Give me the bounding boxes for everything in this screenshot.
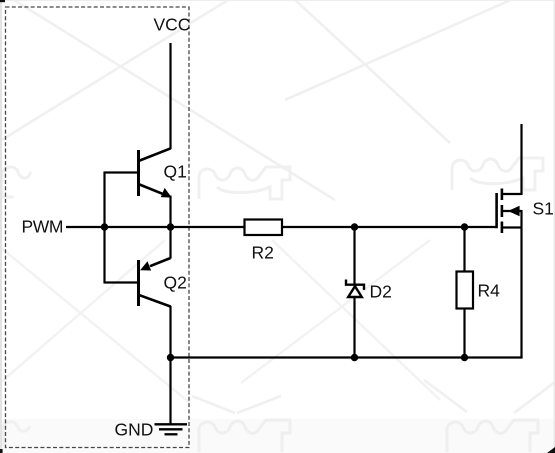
svg-text:R4: R4 (478, 281, 501, 301)
S1 gate bar (495, 193, 498, 228)
S1 channel segment top (501, 189, 504, 201)
node PWM junction (101, 223, 108, 230)
resistor R4 (457, 272, 474, 309)
wire Q2 base lead (105, 281, 138, 283)
wire node to Q2 emitter (169, 227, 171, 259)
node R4 top junction (461, 223, 468, 230)
S1 body stub (502, 210, 522, 212)
svg-text:GND: GND (115, 420, 154, 440)
D2 anode triangle (348, 286, 362, 297)
wire Q1 base lead (105, 171, 138, 173)
watermark X cross mid-left (0, 240, 190, 403)
watermark X cross mid-right (241, 240, 440, 400)
frame top edge (0, 0, 555, 1)
node bottom-left junction (167, 354, 174, 361)
S1 channel segment bottom (501, 222, 504, 234)
svg-text:Q2: Q2 (164, 273, 187, 293)
watermark X cross upper-left (0, 0, 335, 200)
zener diode D2 (346, 280, 364, 298)
S1 source stub (502, 226, 522, 228)
S1 drain stub (502, 193, 522, 195)
node output junction (167, 223, 174, 230)
watermark logo middle row right (452, 158, 543, 190)
wire R4 lower lead (463, 309, 465, 358)
ground symbol (155, 424, 188, 434)
corner mark top-left (0, 0, 5, 2)
Q1 collector diagonal (139, 148, 171, 161)
wire ground lead (169, 358, 171, 424)
watermark bottom tint (0, 419, 555, 453)
svg-text:R2: R2 (252, 243, 274, 263)
Q1 emitter arrow (161, 188, 172, 198)
watermark V bottom-right (424, 380, 555, 413)
Q1 emitter diagonal (140, 185, 166, 195)
Q2 emitter diagonal (150, 258, 171, 266)
corner mark bottom-right (547, 447, 555, 453)
S1 body arrow (508, 206, 520, 216)
frame left edge (0, 0, 2, 453)
node D2 top junction (351, 223, 358, 230)
Q2 base bar (137, 260, 140, 306)
watermark logo bottom right (447, 420, 538, 452)
wire VCC lead (169, 43, 171, 149)
svg-text:PWM: PWM (22, 217, 64, 237)
dashed driver box (6, 7, 190, 448)
svg-text:VCC: VCC (154, 14, 191, 34)
resistor R2 (245, 220, 283, 236)
wire drain lead (520, 124, 522, 195)
wire Q1 emitter to node (169, 196, 171, 228)
node bottom R4 junction (461, 354, 468, 361)
transistor Q2 (139, 258, 171, 307)
watermark V bottom-middle (192, 396, 281, 413)
Q2 emitter arrow (140, 261, 151, 270)
wire Q2 collector to bottom node (169, 306, 171, 358)
svg-text:Q1: Q1 (164, 162, 187, 182)
frame right edge (554, 0, 555, 453)
watermark logo bottom-left partial (3, 422, 30, 446)
wire D2 upper lead (353, 227, 355, 285)
svg-text:S1: S1 (533, 199, 554, 219)
watermark logo middle row left (199, 167, 290, 199)
D2 cathode bar with zener tails (346, 280, 364, 290)
watermark logo partial left edge (0, 167, 31, 197)
wire R4 upper lead (463, 227, 465, 272)
Q2 collector diagonal (139, 295, 171, 307)
wire R2 to gate (282, 226, 497, 228)
wire bottom rail (171, 356, 523, 358)
S1 channel segment middle (501, 205, 504, 217)
watermark logo bottom middle (199, 420, 290, 452)
wire D2 lower lead (353, 297, 355, 358)
watermark X cross upper-right (280, 0, 533, 143)
node bottom D2 junction (351, 354, 358, 361)
wire PWM lead (66, 226, 105, 228)
wire left vertical (base bus) (103, 172, 105, 284)
wire source to bottom rail (520, 210, 522, 358)
mosfet S1 (497, 189, 522, 234)
transistor Q1 (139, 148, 172, 197)
corner mark bottom-left (0, 449, 3, 453)
wire main horizontal to R2 (105, 226, 246, 228)
svg-text:D2: D2 (370, 282, 392, 302)
Q1 base bar (137, 150, 140, 196)
